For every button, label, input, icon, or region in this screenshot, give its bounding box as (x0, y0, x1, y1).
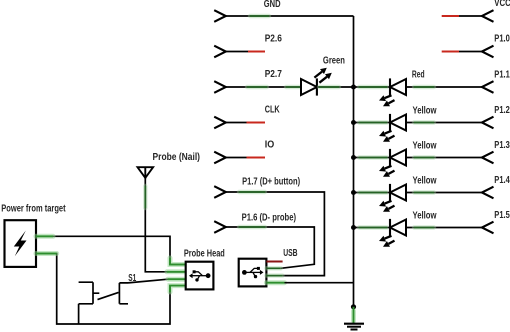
svg-text:Probe Head: Probe Head (184, 249, 225, 260)
wire CLK stub (226, 122, 248, 124)
wire power minus: box down and along bottom (36, 254, 170, 325)
terminal GND (left) (214, 10, 226, 22)
USB pin4 green (GND) (266, 280, 284, 285)
wire P2.6 stub (226, 51, 249, 53)
wire LED2 green left (359, 85, 387, 89)
wire LED2 green right (414, 85, 434, 89)
wire P1.0 stub (458, 51, 482, 53)
terminal VCC (right) (482, 10, 494, 22)
LED LED3 Yellow (cathode bar left) (379, 114, 406, 142)
svg-text:Yellow: Yellow (413, 105, 437, 116)
wire P2.6 red end (248, 51, 265, 53)
wire antenna green segment (143, 186, 147, 208)
terminal IO (left) (214, 152, 226, 164)
power source box (Power from target) (5, 220, 37, 267)
svg-text:GND: GND (264, 0, 281, 10)
wire LED4 green left (359, 155, 387, 159)
USB pin3 green (D+) (266, 273, 282, 277)
terminal P1.2 (right) (482, 117, 494, 129)
wire VCC stub (458, 15, 482, 17)
svg-text:Probe (Nail): Probe (Nail) (153, 152, 201, 163)
svg-text:P2.7: P2.7 (265, 69, 283, 80)
wire CLK red end (247, 122, 266, 124)
LED LED1 Green (apex right at bar) (301, 68, 332, 96)
terminal P1.6 (left) (214, 221, 226, 233)
LED LED6 Yellow (cathode bar left) (379, 219, 406, 247)
wire LED4 to terminal P1.3 (406, 157, 482, 159)
wire LED5 to terminal P1.4 (406, 192, 482, 194)
wire P2.7 green segment 2 (286, 85, 300, 89)
wire bus to LED6 (354, 227, 391, 229)
wire P2.7 to LED1 anode (226, 86, 301, 88)
wire bus to LED2 (354, 86, 391, 88)
wire GND row to bus (226, 15, 354, 17)
wire P1.7 green segment (239, 190, 265, 194)
wire antenna to probe head pin2 (145, 178, 185, 272)
svg-text:P1.3: P1.3 (494, 140, 510, 151)
wire LED2 to terminal P1.1 (406, 86, 482, 88)
wire probe pin2 green (167, 269, 185, 274)
wire bus to LED5 (354, 192, 391, 194)
USB box (239, 259, 267, 287)
wire LED1 cathode to bus (317, 86, 354, 88)
svg-text:P1.4: P1.4 (494, 175, 510, 186)
terminal CLK (left) (214, 117, 226, 129)
svg-text:P1.7 (D+ button): P1.7 (D+ button) (242, 176, 300, 187)
wire LED6 green left (359, 225, 387, 229)
wire LED3 green left (359, 120, 387, 124)
terminal P1.7 (left) (214, 186, 226, 198)
svg-text:P1.5: P1.5 (494, 210, 510, 221)
LED LED2 Red (cathode bar left) (379, 78, 406, 106)
svg-text:P1.6 (D- probe): P1.6 (D- probe) (242, 212, 296, 223)
terminal P2.6 (left) (214, 46, 226, 58)
wire probe head pin4 green (170, 286, 185, 292)
wire power plus green at probe pin1 (170, 258, 185, 265)
svg-text:Yellow: Yellow (413, 140, 437, 151)
svg-text:Yellow: Yellow (413, 210, 437, 221)
junction dot P1.5 row on bus (351, 225, 356, 230)
wire S1 to probe head pin3 (128, 279, 168, 283)
ground symbol (344, 324, 364, 330)
LED LED5 Yellow (cathode bar left) (379, 184, 406, 212)
junction dot P1.3 row on bus (351, 155, 356, 160)
wire P2.7 green segment 1 (247, 85, 267, 89)
svg-text:Red: Red (412, 69, 425, 80)
probe head box (186, 262, 214, 290)
wire probe pin3 green (168, 277, 185, 282)
svg-text:P2.6: P2.6 (265, 34, 283, 45)
USB pin1 red (V+) (266, 261, 282, 263)
terminal P1.5 (right) (482, 222, 494, 234)
svg-text:IO: IO (265, 140, 275, 151)
wire LED4 green right (414, 155, 434, 159)
lightning bolt icon (14, 231, 27, 257)
LED LED4 Yellow (cathode bar left) (379, 149, 406, 177)
terminal P1.3 (right) (482, 152, 494, 164)
wire IO red end (247, 157, 266, 159)
junction dot P1.2 row on bus (351, 120, 356, 125)
probe head USB icon (trident pointing left) (189, 270, 211, 281)
terminal P1.1 (right) (482, 81, 494, 93)
wire bus to LED4 (354, 157, 391, 159)
wire power plus green at box (36, 234, 53, 239)
svg-text:VCC: VCC (494, 0, 510, 9)
wire P1.6 green segment (239, 225, 265, 229)
USB pin2 green (D-) (266, 266, 280, 270)
wire LED6 to terminal P1.5 (406, 227, 482, 229)
wire LED5 green right (414, 190, 434, 194)
terminal P2.7 (left) (214, 81, 226, 93)
wire LED5 green left (359, 190, 387, 194)
svg-text:Green: Green (323, 56, 345, 67)
wire bus to ground (green) (351, 311, 356, 321)
svg-text:Yellow: Yellow (413, 175, 437, 186)
svg-text:P1.2: P1.2 (494, 105, 510, 116)
switch S1 (79, 282, 128, 304)
wire LED6 green right (414, 225, 434, 229)
antenna Probe (Nail) (138, 167, 154, 178)
wire USB pin4 to bus (285, 282, 354, 284)
wire P1.0 red end (442, 51, 459, 53)
wire power minus green at box (36, 251, 57, 256)
wire green segment after LED1 (319, 85, 339, 89)
junction dot bus above ground (351, 304, 356, 309)
svg-text:USB: USB (283, 248, 297, 259)
wire power plus: box to probe head pin1 (36, 236, 185, 264)
wire LED3 to terminal P1.2 (406, 122, 482, 124)
wire VCC red end (442, 15, 459, 17)
svg-text:P1.0: P1.0 (494, 34, 510, 45)
wire bus to LED3 (354, 122, 391, 124)
wire P1.7 to USB pin3 (226, 192, 325, 276)
USB icon (trident pointing right) (242, 267, 264, 278)
wire GND green segment (250, 14, 269, 18)
junction dot P1.4 row on bus (351, 190, 356, 195)
svg-text:Power from target: Power from target (1, 204, 66, 215)
svg-text:P1.1: P1.1 (494, 70, 510, 81)
wire IO stub (226, 157, 248, 159)
terminal P1.4 (right) (482, 187, 494, 199)
wire main GND bus vertical (353, 16, 355, 307)
wire LED3 green right (414, 120, 434, 124)
junction dot P2.7/P1.1 row on bus (351, 85, 356, 90)
wire P1.6 to USB pin2 (226, 227, 314, 268)
svg-text:CLK: CLK (265, 105, 281, 116)
wire S1 bottom-left to bottom rail (78, 304, 80, 324)
terminal P1.0 (right) (482, 46, 494, 58)
